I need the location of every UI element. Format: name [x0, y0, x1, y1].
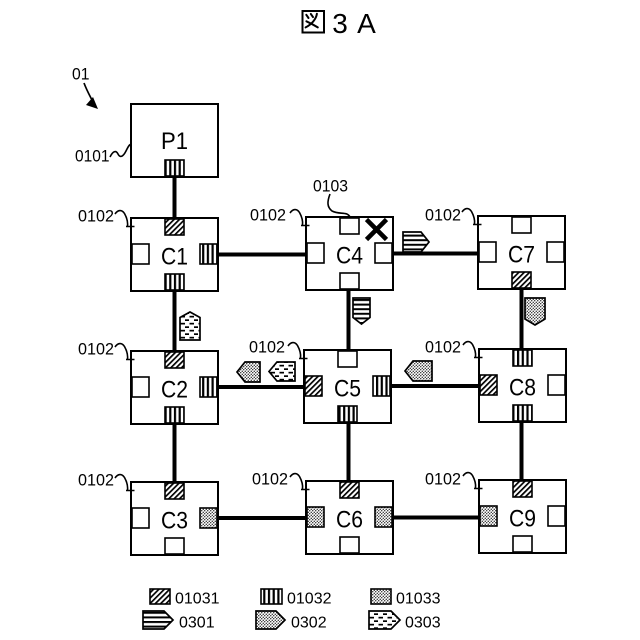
svg-text:0303: 0303 [405, 615, 441, 632]
svg-text:0102: 0102 [250, 206, 286, 225]
svg-text:0102: 0102 [249, 338, 285, 357]
svg-text:0102: 0102 [425, 338, 461, 357]
svg-text:C4: C4 [336, 243, 363, 270]
svg-text:0102: 0102 [78, 471, 114, 490]
svg-text:3: 3 [332, 8, 348, 39]
svg-text:C5: C5 [334, 376, 361, 403]
svg-text:C2: C2 [161, 377, 188, 404]
svg-text:C8: C8 [509, 375, 536, 402]
svg-text:0101: 0101 [75, 147, 110, 166]
svg-text:01033: 01033 [396, 591, 441, 608]
svg-text:0102: 0102 [425, 206, 461, 225]
svg-text:C1: C1 [161, 244, 188, 271]
svg-text:C3: C3 [161, 508, 188, 535]
svg-text:0102: 0102 [252, 470, 288, 489]
svg-text:0301: 0301 [179, 615, 215, 632]
svg-text:0103: 0103 [313, 177, 348, 196]
svg-text:C9: C9 [509, 506, 536, 533]
svg-text:01031: 01031 [175, 591, 220, 608]
svg-text:0102: 0102 [78, 207, 114, 226]
svg-text:C6: C6 [336, 507, 363, 534]
svg-text:0102: 0102 [425, 470, 461, 489]
svg-text:C7: C7 [508, 242, 535, 269]
svg-text:P1: P1 [161, 128, 188, 155]
svg-text:0302: 0302 [291, 615, 327, 632]
svg-text:0102: 0102 [78, 340, 114, 359]
svg-text:01: 01 [72, 65, 90, 84]
svg-text:01032: 01032 [287, 591, 332, 608]
svg-text:A: A [357, 8, 376, 39]
